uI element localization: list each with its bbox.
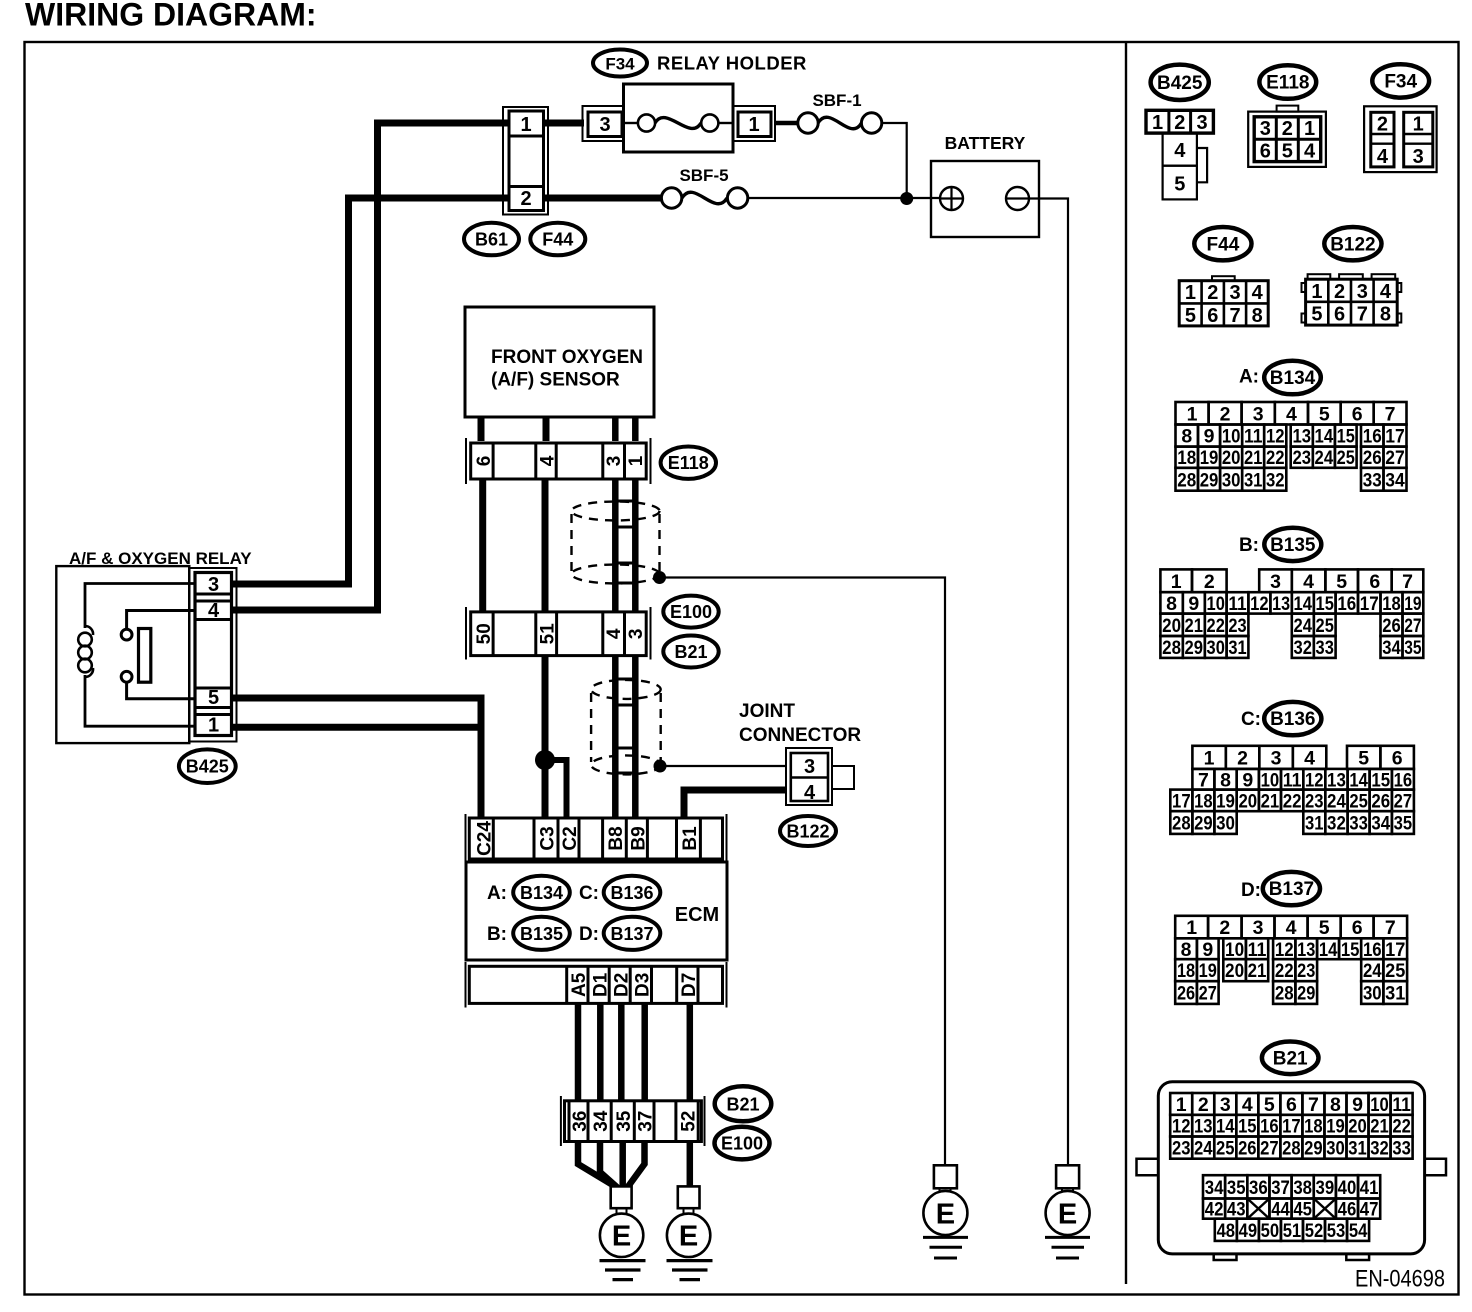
connector B61/F44 shell	[503, 107, 548, 215]
svg-text:32: 32	[1327, 813, 1346, 835]
svg-text:4: 4	[804, 782, 816, 804]
svg-text:28: 28	[1172, 813, 1191, 835]
svg-text:25: 25	[1216, 1138, 1235, 1160]
svg-text:35: 35	[1404, 637, 1421, 659]
svg-text:33: 33	[1363, 469, 1382, 491]
pinout label C: B136	[1241, 702, 1321, 735]
svg-text:51: 51	[538, 623, 559, 645]
svg-text:20: 20	[1225, 960, 1244, 982]
svg-text:B21: B21	[1273, 1048, 1308, 1069]
svg-text:2: 2	[520, 188, 531, 210]
label B61 oval	[464, 223, 519, 256]
svg-text:B136: B136	[610, 883, 653, 903]
svg-text:14: 14	[1349, 769, 1368, 791]
ECM pin D2	[612, 973, 633, 997]
svg-text:D2: D2	[612, 973, 633, 997]
svg-text:7: 7	[1385, 403, 1396, 425]
wire SBF-5 to battery	[748, 197, 940, 199]
pinout E118 digits	[1260, 118, 1316, 163]
svg-text:2: 2	[1207, 282, 1218, 304]
svg-text:1: 1	[626, 455, 647, 466]
battery positive terminal	[940, 187, 963, 210]
svg-text:23: 23	[1297, 960, 1315, 982]
svg-text:CONNECTOR: CONNECTOR	[739, 725, 861, 746]
svg-text:24: 24	[1294, 615, 1313, 637]
svg-text:22: 22	[1275, 960, 1294, 982]
svg-text:7: 7	[1198, 769, 1209, 791]
svg-text:4: 4	[604, 628, 625, 639]
svg-text:31: 31	[1348, 1138, 1367, 1160]
svg-text:54: 54	[1349, 1220, 1368, 1242]
connector E118 shell	[466, 438, 651, 484]
svg-text:13: 13	[1327, 769, 1346, 791]
svg-text:19: 19	[1200, 447, 1219, 469]
svg-text:B21: B21	[674, 642, 707, 662]
pinout F34 shell	[1364, 106, 1437, 172]
pinout B21 bottom tabs	[1214, 1254, 1369, 1260]
svg-text:22: 22	[1266, 447, 1285, 469]
pinout B425 pin 4	[1163, 133, 1197, 166]
svg-text:3: 3	[1253, 917, 1264, 939]
svg-text:B135: B135	[520, 924, 563, 944]
svg-text:14: 14	[1294, 593, 1313, 615]
svg-text:9: 9	[1204, 426, 1215, 448]
svg-text:44: 44	[1271, 1199, 1290, 1221]
label A: B134	[487, 876, 570, 909]
svg-text:29: 29	[1194, 813, 1213, 835]
pinout B137 row1	[1175, 916, 1407, 939]
pinout E118 tab	[1277, 106, 1299, 112]
ECM bottom strip dividers	[567, 966, 698, 1003]
svg-text:12: 12	[1172, 1116, 1191, 1138]
svg-text:C:: C:	[1241, 709, 1261, 730]
svg-text:15: 15	[1341, 939, 1360, 961]
pinout B122 digits	[1311, 281, 1392, 326]
connector E100 pin 3	[625, 612, 648, 656]
svg-text:B137: B137	[1269, 879, 1314, 900]
wire E118-1 to E100-3	[632, 479, 639, 612]
svg-text:9: 9	[1352, 1094, 1363, 1116]
label E100 oval bottom	[715, 1127, 770, 1160]
pinout label E118	[1259, 65, 1316, 99]
svg-text:3: 3	[1260, 118, 1271, 140]
svg-text:28: 28	[1282, 1138, 1301, 1160]
svg-text:B:: B:	[487, 924, 507, 945]
svg-text:4: 4	[538, 455, 559, 466]
svg-text:C3: C3	[538, 826, 559, 850]
ECM bottom strip shell	[466, 962, 727, 1008]
svg-text:17: 17	[1360, 593, 1379, 615]
wire B61-1 to relay pin4	[233, 123, 509, 610]
pinout B134 row1	[1176, 402, 1407, 425]
wire relay-1 joins C24 wire	[233, 724, 485, 731]
svg-text:35: 35	[1227, 1177, 1246, 1199]
pinout F44 tab	[1212, 276, 1235, 281]
svg-text:8: 8	[1181, 426, 1192, 448]
wire 52 to ground	[687, 1142, 694, 1188]
relay pin 3	[195, 574, 232, 596]
svg-text:27: 27	[1394, 790, 1413, 812]
svg-text:B134: B134	[520, 883, 563, 903]
svg-text:7: 7	[1385, 917, 1396, 939]
svg-text:5: 5	[1185, 305, 1196, 327]
svg-text:8: 8	[1330, 1094, 1341, 1116]
svg-text:14: 14	[1315, 426, 1334, 448]
shield lower drain junction	[654, 760, 667, 773]
pinout F44 shell	[1179, 281, 1268, 326]
svg-text:3: 3	[1220, 1094, 1231, 1116]
svg-text:16: 16	[1363, 426, 1382, 448]
wire B61-2 to relay pin3	[233, 198, 509, 584]
pinout label A: B134	[1239, 361, 1321, 395]
label A/F & OXYGEN RELAY	[69, 549, 252, 568]
svg-text:24: 24	[1327, 790, 1346, 812]
svg-text:13: 13	[1272, 593, 1290, 615]
relay coil	[78, 626, 93, 677]
wire sensor pin6	[478, 417, 485, 441]
svg-text:22: 22	[1207, 615, 1225, 637]
svg-text:41: 41	[1360, 1177, 1379, 1199]
wire relay-5 to ECM C24	[233, 698, 481, 818]
pinout B135 row4	[1160, 636, 1423, 659]
svg-text:22: 22	[1283, 790, 1302, 812]
connector E118 pin 4	[536, 443, 559, 479]
pinout F34 left column	[1371, 112, 1394, 167]
svg-text:12: 12	[1275, 939, 1294, 961]
ECM top strip shell	[466, 814, 727, 862]
label B122 oval	[780, 816, 836, 846]
svg-text:2: 2	[1334, 281, 1345, 303]
svg-text:27: 27	[1260, 1138, 1279, 1160]
label D: B137	[579, 917, 660, 950]
svg-text:1: 1	[748, 114, 759, 136]
svg-text:35: 35	[614, 1110, 635, 1132]
svg-text:49: 49	[1239, 1220, 1258, 1242]
ground 3 hatching	[923, 1237, 968, 1258]
fuse SBF-5	[661, 188, 747, 208]
svg-text:25: 25	[1316, 615, 1334, 637]
svg-text:21: 21	[1244, 447, 1263, 469]
svg-text:5: 5	[1336, 571, 1347, 593]
ground 3 neck	[940, 1188, 951, 1192]
svg-text:37: 37	[1271, 1177, 1290, 1199]
svg-text:C:: C:	[579, 883, 599, 904]
connector E100 pin 51	[536, 612, 559, 656]
svg-text:18: 18	[1177, 960, 1195, 982]
svg-text:34: 34	[1205, 1177, 1224, 1199]
svg-text:25: 25	[1349, 790, 1368, 812]
connector E100/B21 shell	[466, 607, 651, 660]
svg-text:2: 2	[1219, 917, 1230, 939]
svg-text:15: 15	[1337, 426, 1355, 448]
svg-text:20: 20	[1348, 1116, 1367, 1138]
relay holder terminal 1	[733, 106, 775, 141]
svg-text:E: E	[1058, 1198, 1077, 1230]
svg-text:30: 30	[1222, 469, 1241, 491]
svg-text:3: 3	[1270, 571, 1281, 593]
label B21 oval	[663, 636, 718, 668]
svg-text:19: 19	[1216, 790, 1235, 812]
svg-text:31: 31	[1228, 637, 1246, 659]
ground 1 terminal box	[611, 1186, 632, 1208]
svg-text:2: 2	[1204, 571, 1215, 593]
svg-text:3: 3	[626, 629, 647, 640]
wire shield upper drain to ground	[660, 578, 946, 1166]
svg-text:E100: E100	[670, 602, 712, 622]
svg-text:21: 21	[1261, 790, 1280, 812]
svg-text:9: 9	[1242, 769, 1253, 791]
svg-text:1: 1	[1304, 118, 1315, 140]
svg-text:7: 7	[1357, 304, 1368, 326]
connector E118 pin 3	[603, 443, 625, 479]
relay contact upper	[121, 611, 195, 640]
svg-text:8: 8	[1181, 939, 1192, 961]
svg-text:D1: D1	[590, 972, 611, 997]
ground 4 symbol E	[1046, 1191, 1090, 1235]
svg-text:6: 6	[1334, 304, 1345, 326]
svg-text:32: 32	[1294, 637, 1313, 659]
svg-text:52: 52	[679, 1111, 700, 1132]
svg-text:B425: B425	[1157, 73, 1203, 94]
wire 34 to ground	[600, 1142, 618, 1189]
svg-text:10: 10	[1370, 1094, 1389, 1116]
pinout label F34	[1372, 64, 1429, 97]
wire relay holder to SBF-1	[775, 121, 798, 126]
pinout label B122	[1324, 227, 1381, 260]
svg-text:29: 29	[1297, 983, 1315, 1005]
svg-text:13: 13	[1194, 1116, 1213, 1138]
label FRONT OXYGEN (A/F) SENSOR	[491, 347, 643, 391]
wire B61-2 to SBF-5	[544, 195, 664, 202]
svg-text:29: 29	[1304, 1138, 1323, 1160]
svg-text:7: 7	[1308, 1094, 1319, 1116]
wire sensor pin4	[543, 417, 550, 441]
ground 1 hatching	[600, 1261, 646, 1280]
svg-text:SBF-5: SBF-5	[679, 166, 728, 185]
svg-text:14: 14	[1319, 939, 1338, 961]
pinout F34 digits	[1377, 114, 1424, 169]
svg-text:1: 1	[1152, 112, 1163, 134]
svg-text:8: 8	[1252, 305, 1263, 327]
svg-text:37: 37	[636, 1111, 657, 1132]
connector B61/F44 pin 2	[509, 187, 544, 211]
fuse SBF-1	[798, 113, 882, 133]
wire D7 to 52	[687, 1003, 694, 1101]
ground 2 neck	[684, 1208, 694, 1214]
svg-text:B136: B136	[1270, 709, 1315, 730]
svg-text:16: 16	[1260, 1116, 1279, 1138]
svg-text:23: 23	[1228, 615, 1246, 637]
relay connector B425 shell	[189, 568, 237, 742]
svg-text:31: 31	[1244, 469, 1263, 491]
svg-text:21: 21	[1248, 960, 1267, 982]
svg-text:JOINT: JOINT	[739, 701, 795, 722]
svg-text:19: 19	[1404, 593, 1421, 615]
svg-text:3: 3	[804, 756, 815, 778]
pinout F44 digits	[1185, 282, 1264, 327]
shield lower dashed	[591, 680, 661, 775]
svg-text:28: 28	[1177, 469, 1196, 491]
svg-text:32: 32	[1370, 1138, 1389, 1160]
svg-text:E: E	[936, 1198, 955, 1230]
title WIRING DIAGRAM	[25, 0, 317, 33]
svg-text:30: 30	[1363, 983, 1382, 1005]
relay pin 1	[195, 715, 232, 737]
svg-text:11: 11	[1248, 939, 1267, 961]
ECM pin B8	[606, 826, 627, 850]
svg-text:30: 30	[1326, 1138, 1345, 1160]
svg-text:5: 5	[1282, 141, 1293, 163]
svg-text:27: 27	[1404, 615, 1421, 637]
svg-text:48: 48	[1217, 1220, 1236, 1242]
svg-text:7: 7	[1229, 305, 1240, 327]
pinout B134 row4	[1176, 468, 1407, 491]
svg-text:31: 31	[1385, 983, 1405, 1005]
svg-text:6: 6	[1392, 747, 1403, 769]
svg-text:17: 17	[1172, 790, 1191, 812]
svg-text:4: 4	[1303, 571, 1314, 593]
svg-text:23: 23	[1172, 1138, 1191, 1160]
svg-text:33: 33	[1349, 813, 1368, 835]
connector B61/F44 pin 1	[509, 114, 544, 136]
svg-text:3: 3	[208, 574, 219, 596]
pinout B134 row3	[1176, 447, 1407, 470]
svg-text:B137: B137	[610, 924, 653, 944]
svg-text:2: 2	[1237, 747, 1248, 769]
pin 34	[591, 1110, 612, 1132]
svg-text:WIRING DIAGRAM:: WIRING DIAGRAM:	[25, 0, 317, 33]
svg-text:11: 11	[1228, 593, 1246, 615]
svg-text:35: 35	[1394, 813, 1413, 835]
svg-text:21: 21	[1370, 1116, 1389, 1138]
svg-text:20: 20	[1162, 615, 1181, 637]
svg-text:30: 30	[1216, 813, 1235, 835]
svg-text:34: 34	[1371, 813, 1390, 835]
svg-text:B61: B61	[475, 230, 508, 250]
ECM pin C24	[475, 821, 496, 856]
battery box	[931, 161, 1039, 237]
svg-text:D:: D:	[1241, 880, 1261, 901]
ECM pin D1	[590, 972, 611, 997]
connector B21/E100 shell	[561, 1096, 705, 1146]
relay coil lead bottom	[85, 675, 195, 726]
svg-text:19: 19	[1326, 1116, 1345, 1138]
svg-text:15: 15	[1316, 593, 1334, 615]
svg-text:1: 1	[1186, 917, 1197, 939]
wire E118-6 to E100-50	[479, 479, 486, 612]
svg-text:E118: E118	[668, 453, 709, 473]
pinout B21 rows 34-54	[1203, 1175, 1380, 1242]
svg-text:26: 26	[1177, 983, 1195, 1005]
fuse in relay holder	[624, 114, 734, 131]
wire 37 to ground	[627, 1142, 645, 1189]
svg-text:FRONT OXYGEN: FRONT OXYGEN	[491, 347, 643, 368]
wire E100-3 to ECM B9	[632, 656, 639, 818]
svg-text:4: 4	[1380, 281, 1392, 303]
svg-text:24: 24	[1194, 1138, 1213, 1160]
ECM pin B1	[680, 826, 701, 851]
pinout B135 row1	[1160, 569, 1423, 592]
pinout B136 row3	[1170, 790, 1414, 813]
ECM pin A5	[569, 972, 590, 997]
pinout label B: B135	[1239, 528, 1321, 561]
svg-text:18: 18	[1304, 1116, 1323, 1138]
svg-text:B21: B21	[726, 1094, 759, 1114]
svg-text:31: 31	[1305, 813, 1324, 835]
svg-text:1: 1	[520, 114, 531, 136]
svg-text:F34: F34	[1384, 72, 1417, 93]
ECM pin C3	[538, 826, 559, 850]
ground 1 neck	[617, 1208, 627, 1214]
pinout label F44	[1194, 227, 1251, 260]
svg-text:4: 4	[1252, 282, 1264, 304]
pinout B136 row2	[1192, 769, 1414, 791]
svg-text:EN-04698: EN-04698	[1355, 1266, 1445, 1293]
label C: B136	[579, 876, 660, 909]
svg-text:5: 5	[1174, 174, 1185, 196]
svg-text:51: 51	[1283, 1220, 1302, 1242]
svg-text:33: 33	[1392, 1138, 1411, 1160]
svg-text:6: 6	[474, 456, 495, 467]
label B21 oval bottom	[715, 1086, 772, 1121]
relay holder terminal 3	[583, 106, 624, 141]
svg-text:1: 1	[1185, 282, 1196, 304]
svg-text:9: 9	[1202, 939, 1213, 961]
svg-text:11: 11	[1392, 1094, 1411, 1116]
svg-text:3: 3	[1357, 281, 1368, 303]
pinout F34 right column	[1404, 112, 1433, 167]
connector E118 pin 1	[625, 443, 648, 479]
svg-text:5: 5	[1319, 403, 1330, 425]
svg-text:13: 13	[1292, 426, 1311, 448]
svg-text:26: 26	[1363, 447, 1382, 469]
svg-text:3: 3	[1253, 403, 1264, 425]
ground 3 symbol E	[923, 1191, 967, 1235]
pinout B21 left tab	[1137, 1159, 1159, 1176]
svg-text:32: 32	[1266, 469, 1285, 491]
svg-text:3: 3	[1413, 146, 1424, 168]
pinout label B425	[1151, 65, 1209, 100]
pinout B21 rows 1-33	[1170, 1093, 1412, 1160]
svg-text:4: 4	[1304, 747, 1315, 769]
svg-text:17: 17	[1385, 939, 1405, 961]
label E118 oval	[661, 447, 716, 479]
pinout B21 right tab	[1425, 1159, 1446, 1176]
label BATTERY	[945, 133, 1026, 153]
svg-text:20: 20	[1222, 447, 1241, 469]
ECM pin B9	[629, 826, 650, 850]
svg-text:2: 2	[1220, 403, 1231, 425]
svg-text:50: 50	[1261, 1220, 1280, 1242]
wire sensor pin1	[632, 417, 639, 441]
svg-text:11: 11	[1244, 426, 1263, 448]
wire battery negative to ground	[1029, 199, 1068, 1166]
svg-text:D:: D:	[579, 924, 599, 945]
junction battery positive node	[900, 192, 913, 205]
svg-text:C24: C24	[475, 821, 496, 856]
label RELAY HOLDER	[657, 53, 807, 74]
svg-text:SBF-1: SBF-1	[812, 91, 861, 110]
ground 2 terminal box	[678, 1186, 700, 1208]
svg-text:16: 16	[1363, 939, 1382, 961]
svg-text:50: 50	[474, 623, 495, 644]
svg-text:E: E	[612, 1221, 631, 1253]
svg-text:4: 4	[1242, 1094, 1253, 1116]
label B425 oval	[179, 749, 236, 783]
svg-text:6: 6	[1260, 141, 1271, 163]
pinout B136 row1	[1192, 746, 1414, 770]
connector B21/E100 dividers	[569, 1101, 698, 1142]
